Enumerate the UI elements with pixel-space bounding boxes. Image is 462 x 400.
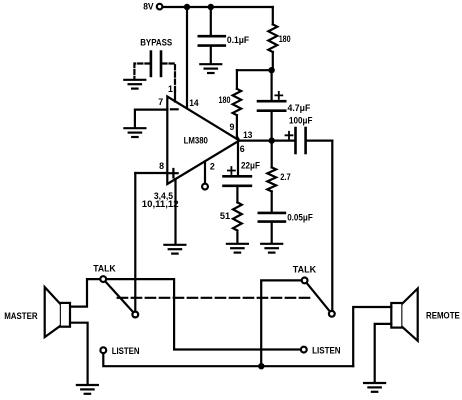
svg-text:REMOTE: REMOTE — [426, 310, 460, 320]
terminal pin 2 — [202, 184, 208, 190]
junction listen bus — [258, 363, 264, 369]
svg-text:LM380: LM380 — [184, 136, 208, 147]
wire remote speaker bottom to ground — [375, 324, 392, 382]
wire pin 1 stub — [174, 91, 176, 101]
svg-text:9: 9 — [230, 122, 235, 132]
terminal S1 pole — [100, 276, 106, 282]
svg-text:22μF: 22μF — [241, 160, 260, 170]
capacitor 0.1uF — [199, 7, 225, 64]
wire S1 pole to master speaker — [70, 279, 100, 307]
ground remote — [364, 383, 385, 392]
mechanical linkage dashed — [118, 297, 312, 299]
terminal S1 throw — [132, 312, 138, 318]
capacitor 22uF — [224, 141, 251, 203]
svg-text:10,11,12: 10,11,12 — [142, 199, 179, 209]
wire S2 pole to listen bus — [261, 280, 301, 366]
svg-text:BYPASS: BYPASS — [140, 38, 172, 48]
resistor 2.7 — [267, 141, 276, 212]
polarity + 22uF — [228, 167, 235, 174]
op-amp U1 LM380 — [167, 97, 239, 185]
capacitor 4.7uF — [258, 70, 285, 140]
wire output — [239, 140, 294, 142]
capacitor 0.05uF — [259, 213, 285, 243]
svg-text:2.7: 2.7 — [280, 172, 291, 182]
ground bypass — [124, 80, 145, 89]
wire dashed bypass left — [134, 64, 149, 79]
switch S1 arm — [103, 279, 135, 314]
inverting input minus — [171, 108, 178, 110]
junction supply B — [208, 4, 214, 10]
terminal LISTEN right — [301, 347, 307, 353]
ground pin 7 — [124, 128, 145, 137]
wire pin 2 stub — [204, 162, 206, 184]
wire pin 7 — [135, 110, 167, 128]
svg-text:6: 6 — [240, 144, 245, 154]
wire amp ground pins — [174, 179, 176, 244]
svg-text:4.7μF: 4.7μF — [288, 103, 311, 113]
wire pin 14 — [186, 7, 188, 109]
wire pin 8 — [135, 172, 167, 174]
ground master — [77, 385, 98, 394]
junction supply A — [184, 4, 190, 10]
svg-text:MASTER: MASTER — [4, 311, 38, 321]
capacitor bypass — [151, 52, 161, 76]
resistor 180 (top) — [268, 24, 277, 52]
polarity + 100uF — [286, 132, 293, 139]
wire supply to R 180 top — [272, 7, 274, 24]
svg-text:180: 180 — [219, 95, 231, 105]
wire pin 8 to talk switch — [134, 173, 136, 311]
terminal 8V — [157, 4, 163, 10]
svg-text:8V: 8V — [143, 2, 154, 12]
svg-text:LISTEN: LISTEN — [312, 345, 341, 355]
svg-text:TALK: TALK — [93, 264, 116, 274]
terminal LISTEN left — [100, 347, 106, 353]
svg-text:14: 14 — [189, 98, 198, 108]
speaker MASTER — [45, 287, 70, 337]
svg-text:8: 8 — [159, 161, 164, 171]
svg-text:51: 51 — [220, 211, 230, 221]
wire dashed bypass right — [162, 64, 175, 92]
wire master speaker bottom to ground — [70, 323, 88, 385]
svg-text:0.1μF: 0.1μF — [227, 35, 250, 45]
ground 0.05uF — [261, 244, 282, 253]
junction output node — [269, 137, 275, 143]
svg-text:TALK: TALK — [293, 265, 317, 275]
ground 51 — [227, 244, 248, 253]
svg-text:180: 180 — [279, 34, 291, 44]
terminal S2 throw — [329, 311, 335, 317]
non-inverting input plus — [169, 169, 177, 177]
wire output to right talk — [331, 141, 333, 311]
svg-text:LISTEN: LISTEN — [112, 346, 140, 356]
polarity + 4.7uF — [275, 92, 282, 99]
svg-text:13: 13 — [243, 130, 252, 140]
wire supply rail — [163, 6, 273, 8]
junction feedback node — [268, 67, 274, 73]
wire S1 pole to remote listen — [106, 279, 301, 349]
wire R to node — [237, 52, 273, 70]
svg-text:2: 2 — [210, 161, 215, 171]
ground 0.1uF — [200, 64, 221, 73]
ground amp — [164, 245, 185, 254]
svg-text:100μF: 100μF — [289, 115, 313, 125]
terminal S2 pole — [302, 278, 308, 284]
resistor 51 — [233, 202, 242, 243]
resistor 180 (to pin 9) — [233, 70, 242, 140]
svg-text:7: 7 — [158, 97, 163, 107]
svg-text:1: 1 — [168, 84, 173, 94]
svg-text:0.05μF: 0.05μF — [287, 212, 313, 222]
switch S2 arm — [305, 280, 332, 313]
wire remote speaker top to bus — [353, 307, 391, 366]
speaker REMOTE — [391, 289, 417, 341]
wire listen bus — [103, 353, 353, 366]
capacitor 100uF — [296, 128, 333, 153]
